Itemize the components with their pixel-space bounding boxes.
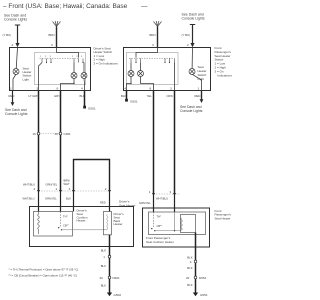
svg-text:Heater: Heater [114, 222, 123, 226]
thermal protector / circuit breaker chain (passenger) [153, 212, 155, 227]
ground G551 (heater) [193, 293, 198, 297]
front passenger's seat back heater box [181, 215, 196, 233]
bulb high out to pin 4 [83, 78, 86, 90]
indicator bulb low (driver) [71, 73, 77, 79]
svg-text:6: 6 [57, 86, 59, 90]
inner contact sub-box (driver) [35, 53, 86, 85]
svg-text:10: 10 [54, 132, 58, 136]
trident multi-connection symbol (left) [53, 21, 61, 27]
svg-text:C381: C381 [64, 132, 72, 136]
svg-text:Seat Cushion Heater: Seat Cushion Heater [146, 240, 174, 244]
connector C381 [33, 132, 72, 136]
svg-text:LT GRN: LT GRN [29, 94, 39, 98]
wire contact to pin 3 bottom (driver) [39, 63, 43, 91]
svg-text:Console Lights: Console Lights [5, 112, 28, 116]
label: front passenger's seat cushion heater [146, 236, 174, 244]
power feed inside switch (passenger) [136, 48, 158, 58]
contact to pin 3 bottom (passenger) [174, 63, 176, 91]
label: driver's seat back heater [114, 212, 125, 226]
svg-text:BLK: BLK [187, 283, 192, 287]
svg-text:(Y BU): (Y BU) [182, 33, 191, 37]
wires row to heater box (passenger) [154, 194, 175, 212]
svg-text:BLK: BLK [187, 266, 192, 270]
indicator bulb high (driver) [81, 73, 87, 79]
bottom pin numbers (passenger switch) [124, 86, 199, 90]
svg-text:* = TH (Thermal Protector) = O: * = TH (Thermal Protector) = Open above … [9, 267, 79, 271]
svg-text:RED: RED [195, 94, 201, 98]
svg-text:G551: G551 [200, 293, 208, 297]
wire bulb to pin1 (passenger) [192, 74, 202, 90]
front passenger's seat heater switch box [124, 48, 211, 91]
bulb feeds [73, 63, 75, 73]
svg-text:3: 3 [37, 86, 39, 90]
svg-text:WHT: WHT [64, 182, 70, 186]
connector row (driver side) [39, 190, 110, 192]
heater element (driver cushion) [38, 212, 40, 233]
wire pin8 down (YEL) [153, 91, 155, 195]
svg-text:BLK: BLK [66, 197, 71, 201]
svg-text:YEL: YEL [147, 94, 153, 98]
svg-text:Seat Heater: Seat Heater [119, 204, 136, 208]
driver's seat heater outer box [30, 207, 134, 247]
svg-text:Light: Light [198, 77, 205, 81]
svg-text:BLK: BLK [121, 94, 126, 98]
svg-text:CB**: CB** [63, 224, 69, 228]
svg-text:WHT/BLU: WHT/BLU [156, 197, 168, 201]
svg-text:Console Lights: Console Lights [182, 17, 205, 21]
ground wire from passenger heater [195, 233, 197, 293]
label: front passenger's seat heater switch [215, 46, 233, 77]
svg-text:G502: G502 [114, 293, 122, 297]
front passenger's seat heater outer box [143, 208, 210, 247]
svg-text:TH*: TH* [157, 215, 161, 219]
svg-text:2: 2 [187, 43, 189, 47]
svg-text:20: 20 [100, 276, 104, 280]
svg-text:3: 3 [152, 43, 154, 47]
svg-text:Heater: Heater [77, 219, 86, 223]
wire from dash lights to pin 2 of driver's switch [15, 25, 20, 44]
bulb feeds (passenger) [130, 63, 132, 71]
svg-text:4: 4 [124, 86, 126, 90]
switch light bulb (passenger) [189, 69, 195, 75]
inline connector [194, 260, 197, 263]
wire pin6 down (GRY) [60, 91, 62, 192]
wire pin3 down (ORN) [174, 91, 176, 195]
svg-text:– Front (USA: Base; Hawaii; Ca: – Front (USA: Base; Hawaii; Canada: Base [3, 3, 128, 10]
ground G502 [107, 293, 112, 297]
svg-text:BRN/: BRN/ [64, 179, 71, 183]
stub pin4 to ground G501 [84, 91, 86, 107]
power feed inside switch [57, 48, 79, 58]
svg-text:BLK: BLK [101, 264, 106, 268]
indicator bulb (passenger, left) [128, 71, 134, 77]
contact row (driver) [40, 57, 79, 59]
connector row pin numbers [34, 187, 107, 191]
svg-text:3: 3 [51, 43, 53, 47]
svg-text:BLK: BLK [101, 249, 106, 253]
stub pin1 to dash lights arrow (passenger) [201, 91, 203, 101]
driver's seat back heater box [104, 212, 112, 235]
svg-text:WHT/BLU: WHT/BLU [23, 182, 35, 186]
bottom pin numbers (driver switch) [10, 86, 83, 90]
heater element (passenger) [181, 218, 182, 230]
inner contact sub-box (passenger) [127, 53, 179, 85]
note: see dash and console lights (top left) [4, 14, 27, 22]
svg-text:2: 2 [12, 43, 14, 47]
note: see dash and console lights (below pin1) [5, 108, 28, 116]
thermal protector / circuit breaker chain (driver) [60, 212, 62, 228]
svg-text:(Y BU): (Y BU) [3, 33, 12, 37]
inline connector [108, 255, 111, 258]
bulb out to pin 8 [141, 76, 154, 90]
svg-text:BLK: BLK [80, 94, 85, 98]
label: driver's seat heater [119, 200, 136, 208]
svg-text:D951: D951 [199, 276, 207, 280]
svg-text:3 = On Indications: 3 = On Indications [94, 62, 119, 66]
svg-text:RED: RED [9, 94, 15, 98]
wire trident to pin 3 of passenger switch [157, 27, 159, 48]
wires row to heater box (driver) [39, 191, 110, 212]
seat back heater jumper loop (driver) [74, 160, 110, 192]
svg-text:3: 3 [170, 86, 172, 90]
svg-text:1: 1 [10, 86, 12, 90]
svg-text:GRN/YEL: GRN/YEL [45, 197, 57, 201]
svg-text:GRY: GRY [54, 94, 60, 98]
svg-text:RED: RED [100, 201, 106, 205]
indicator bulb (passenger, right) [138, 71, 144, 77]
label: driver's seat cushion heater [77, 209, 88, 223]
svg-text:BLK: BLK [187, 256, 192, 260]
note: see dash and console lights (top right) [182, 13, 205, 21]
wire pin2 to bulb (passenger) [191, 48, 193, 69]
svg-text:4: 4 [81, 86, 83, 90]
svg-text:BRN: BRN [150, 33, 156, 37]
stub pin4 to ground G551 [126, 91, 128, 100]
svg-text:Console Lights: Console Lights [4, 18, 27, 22]
note: see dash and console lights (below passenger pin1) [180, 105, 203, 113]
wire from dash lights to pin 2 of passenger switch [190, 25, 195, 45]
ground G501 [83, 106, 86, 109]
svg-text:8: 8 [150, 86, 152, 90]
svg-text:WHT/BLU: WHT/BLU [23, 197, 35, 201]
ground G551 (switch) [125, 99, 128, 102]
label: driver's seat heater switch [94, 46, 119, 65]
ground wire from driver heater [109, 235, 111, 293]
svg-text:TH*: TH* [63, 215, 67, 219]
label: front passenger's seat heater [215, 209, 232, 220]
svg-text:Seat Heater: Seat Heater [215, 216, 231, 220]
wire into cushion (passenger second) [174, 212, 176, 231]
bulb low out to pin 6 [61, 78, 75, 90]
svg-text:D901: D901 [113, 276, 121, 280]
svg-text:** = CB (Circuit Breaker) = Op: ** = CB (Circuit Breaker) = Open above 1… [9, 273, 77, 277]
svg-text:1: 1 [198, 86, 200, 90]
contact row (passenger) [129, 57, 175, 59]
wire pin3 down (LT GRN) [38, 91, 40, 192]
svg-text:ORN: ORN [167, 94, 173, 98]
trident multi-connection symbol (right) [154, 21, 162, 27]
bulb out to pin 4 (ground) [127, 76, 132, 90]
svg-text:—: — [141, 3, 148, 10]
svg-text:16: 16 [33, 132, 37, 136]
front passenger's seat cushion heater box [149, 212, 206, 235]
svg-text:CB**: CB** [157, 224, 163, 228]
label: seat heater switch light (driver) [23, 66, 32, 81]
label: seat heater switch light (passenger) [198, 65, 207, 81]
svg-text:G551: G551 [130, 100, 138, 104]
stub pin1 to dash lights arrow [12, 91, 14, 104]
wire pin2 to bulb [16, 48, 17, 69]
driver's seat heater switch box [10, 48, 91, 91]
svg-text:GRN/YEL: GRN/YEL [139, 201, 151, 205]
driver's seat cushion heater box [34, 212, 73, 237]
svg-text:Light: Light [23, 77, 30, 81]
loop wire label BRN/WHT [64, 179, 71, 186]
svg-text:Console Lights: Console Lights [180, 109, 203, 113]
micro position numbers [40, 56, 83, 58]
switch light bulb (driver) [13, 69, 19, 75]
svg-text:20: 20 [186, 276, 190, 280]
svg-text:GRN/YEL: GRN/YEL [46, 182, 58, 186]
wire trident to pin 3 of driver's switch [56, 27, 58, 48]
svg-text:Indications: Indications [218, 73, 233, 77]
svg-text:BRN: BRN [49, 33, 55, 37]
svg-text:G501: G501 [88, 107, 96, 111]
connector row pin numbers (passenger) [149, 190, 172, 194]
svg-text:BLK: BLK [101, 284, 106, 288]
connector row (passenger side) [154, 193, 181, 195]
wire bulb to pin1 [13, 74, 16, 90]
